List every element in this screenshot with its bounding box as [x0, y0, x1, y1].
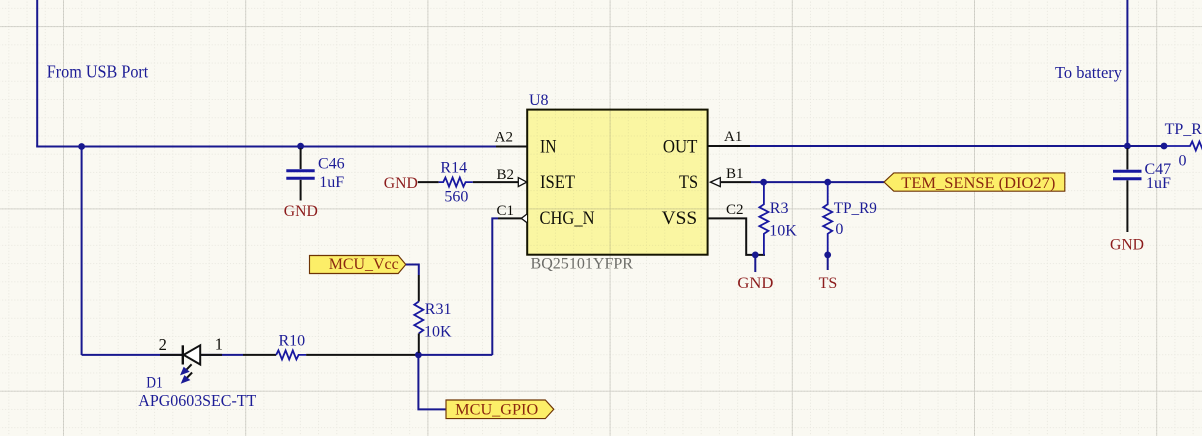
svg-text:ISET: ISET [540, 173, 575, 193]
node: junction at R3 top [760, 179, 767, 186]
svg-text:D1: D1 [146, 374, 163, 391]
pin A2 (IN) [496, 146, 527, 148]
svg-text:MCU_Vcc: MCU_Vcc [329, 256, 399, 273]
svg-text:10K: 10K [769, 222, 797, 239]
svg-text:A2: A2 [495, 130, 513, 146]
wire: TS stub [827, 255, 829, 270]
wire: R10 to junction [306, 354, 417, 356]
svg-text:C2: C2 [726, 202, 744, 218]
wire: TS net [751, 181, 884, 183]
resistor R14 [439, 178, 473, 187]
svg-text:GND: GND [284, 203, 318, 220]
pin C2 (VSS) [708, 218, 765, 255]
svg-text:From USB Port: From USB Port [47, 62, 149, 82]
wire: CHG_N to LED net vertical [492, 217, 498, 355]
wire: junction to MCU_GPIO [418, 355, 446, 410]
svg-text:TP_R9: TP_R9 [834, 200, 877, 217]
resistor R10 [276, 350, 306, 359]
svg-text:CHG_N: CHG_N [540, 209, 595, 229]
resistor R31 [414, 302, 423, 334]
svg-text:U8: U8 [529, 92, 549, 109]
svg-text:VSS: VSS [662, 209, 698, 229]
node: junction at TP_R8 [1161, 143, 1168, 150]
LED arrow 1 [186, 364, 191, 370]
port MCU_GPIO [446, 400, 554, 419]
wire: USB input vertical drop [36, 0, 38, 147]
wire: junction to CHG_N riser [418, 354, 493, 356]
pin B1 (TS) with arrow [721, 181, 751, 183]
wire: GND stub [754, 255, 756, 272]
svg-text:10K: 10K [424, 324, 452, 341]
resistor TP_R9 [823, 182, 832, 255]
svg-text:R10: R10 [279, 332, 306, 349]
wire: LED pin 1 to R10 [243, 354, 276, 356]
resistor R3 [759, 182, 768, 255]
svg-text:R3: R3 [770, 200, 789, 217]
svg-text:GND: GND [737, 275, 773, 292]
capacitor C46 [286, 148, 314, 201]
LED arrow 2 [187, 373, 192, 379]
svg-text:B2: B2 [496, 167, 514, 183]
pin A1 (OUT) [708, 145, 750, 147]
svg-text:C1: C1 [496, 203, 514, 219]
svg-text:TP_R: TP_R [1165, 121, 1202, 138]
node: junction at TP_R9 top [824, 179, 831, 186]
svg-text:BQ25101YFPR: BQ25101YFPR [531, 255, 634, 272]
svg-text:To battery: To battery [1055, 63, 1122, 82]
port TEM_SENSE (DIO27) [884, 173, 1065, 192]
svg-text:OUT: OUT [663, 137, 698, 157]
wire: LED row from branch to LED pin 2 [82, 354, 243, 356]
IC U8 (BQ25101YFPR) body [527, 110, 707, 255]
svg-text:R14: R14 [440, 159, 467, 176]
svg-text:1uF: 1uF [1146, 175, 1171, 192]
wire: battery vertical [1126, 0, 1128, 146]
wire: main horizontal net from USB to IC IN [36, 146, 496, 148]
pin C1 (CHG_N) with output arrow [498, 217, 527, 219]
svg-text:TS: TS [819, 275, 838, 292]
svg-text:0: 0 [835, 221, 843, 238]
svg-text:TS: TS [679, 173, 698, 193]
svg-text:TEM_SENSE (DIO27): TEM_SENSE (DIO27) [901, 175, 1055, 192]
node: junction LED/R31/GPIO [415, 352, 422, 359]
svg-text:560: 560 [444, 188, 468, 205]
node: junction at C47 [1124, 143, 1131, 150]
pin B2 (ISET) with input arrow [473, 181, 518, 183]
port MCU_Vcc [310, 256, 406, 274]
resistor TP_R8 (cut at edge) [1164, 142, 1202, 151]
svg-text:0: 0 [1179, 152, 1187, 169]
capacitor C47 [1113, 148, 1142, 232]
svg-text:A1: A1 [724, 129, 742, 145]
node: junction at GND stub (VSS/R3) [752, 252, 759, 259]
svg-text:APG0603SEC-TT: APG0603SEC-TT [138, 391, 257, 410]
wire: MCU_Vcc to R31 [406, 265, 419, 276]
svg-text:IN: IN [540, 138, 557, 158]
svg-text:1: 1 [215, 335, 223, 354]
svg-text:GND: GND [384, 175, 418, 192]
svg-text:MCU_GPIO: MCU_GPIO [455, 402, 538, 419]
svg-text:1uF: 1uF [319, 174, 344, 191]
LED D1 [160, 345, 222, 383]
svg-text:C46: C46 [318, 155, 345, 172]
svg-text:B1: B1 [726, 166, 744, 182]
svg-text:2: 2 [159, 335, 167, 354]
svg-text:R31: R31 [425, 301, 452, 318]
svg-text:GND: GND [1110, 236, 1144, 253]
node: junction at TS stub [824, 252, 831, 259]
node: junction at C46 [297, 143, 304, 150]
node: junction at LED branch [78, 143, 85, 150]
wire: OUT net to battery [750, 145, 1164, 147]
wire: vertical branch down to LED row [81, 147, 83, 356]
